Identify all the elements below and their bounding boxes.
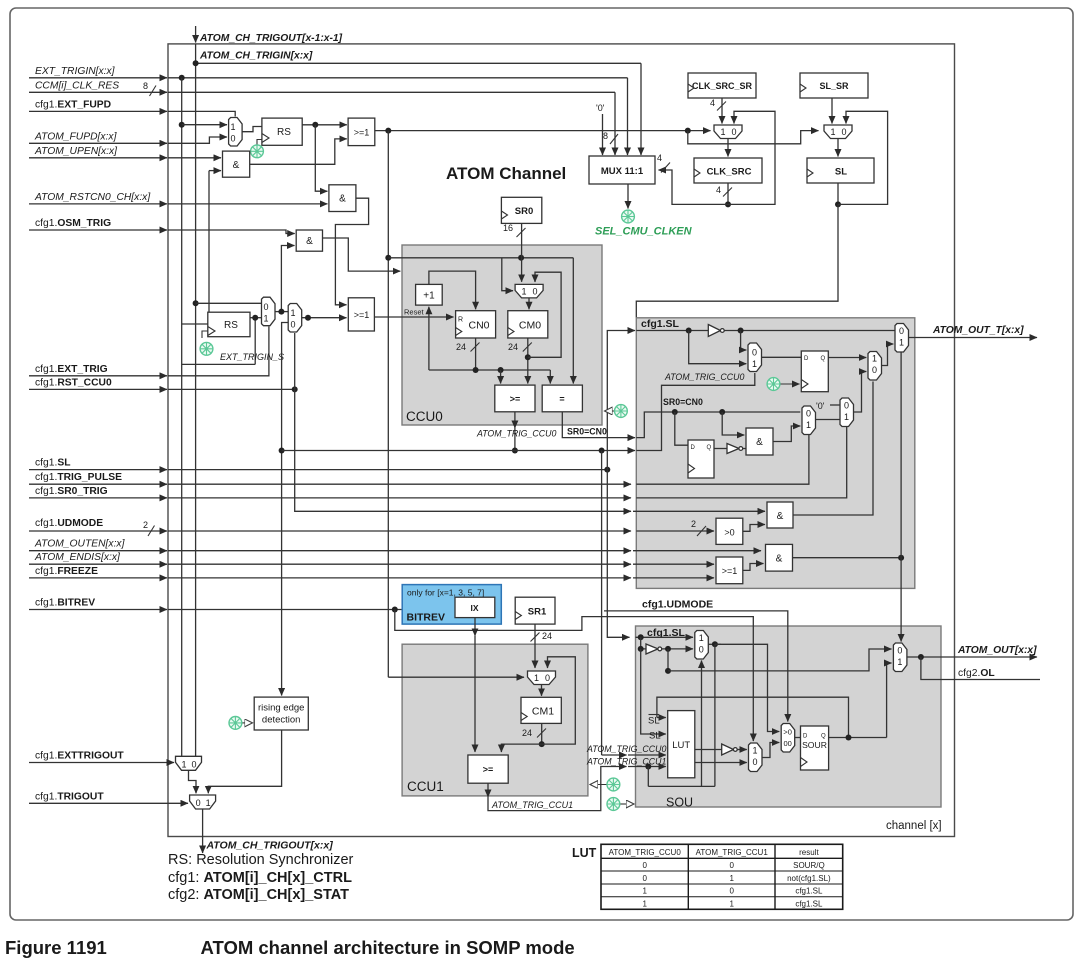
svg-text:SR0=CN0: SR0=CN0 [663,397,703,407]
svg-text:MUX 11:1: MUX 11:1 [601,166,644,177]
svg-text:0: 0 [545,673,550,683]
incrementer +1 [416,284,443,305]
wire mux A to flipflop F2 [762,356,802,358]
wire G1 trigger rail down to CCU1 mux select [387,131,389,678]
svg-text:1: 1 [729,874,734,883]
svg-text:4: 4 [710,98,715,108]
svg-text:ATOM Channel: ATOM Channel [446,164,566,183]
svg-text:>=1: >=1 [354,128,370,138]
output logic gray block (right) [636,318,915,589]
wire CM1 output [541,723,543,744]
wire CN0 output [475,338,477,370]
clock gate star for RS [257,140,262,145]
wire RS output [302,124,347,126]
register SL [807,158,874,183]
wire notSL to mux A 0-input [741,331,747,351]
clock gate star into CCU1 [590,784,607,786]
wire mux G2 to SOUR [795,737,801,739]
wire mux MC0 to CM0 [528,298,530,309]
wire EXT_TRIGIN_S horizontal [182,363,256,365]
svg-text:SEL_CMU_CLKEN: SEL_CMU_CLKEN [595,226,693,238]
wire cfg1.SL through output block [636,330,708,332]
svg-text:SR1: SR1 [528,607,547,618]
AND gate A3 (OSM) [296,230,322,251]
wire cfg1.UDMODE to SOU mux G2 select [604,611,788,722]
wire trigger to SL mux [688,131,819,144]
wire mux C to mux D 0-input [854,372,867,413]
flipflop F1 [688,440,714,478]
svg-text:CCU1: CCU1 [407,779,444,794]
svg-text:&: & [756,437,763,448]
wire SR0=CN0 to AND A4 [722,412,744,435]
svg-text:ATOM_TRIG_CCU0: ATOM_TRIG_CCU0 [664,372,744,382]
wire SL_SR to SL mux [831,98,833,124]
mux MCLK [714,125,742,139]
wire mux M2b output to OR G2 [302,317,347,319]
channel box [168,44,955,837]
node SR0 line junction [518,255,524,261]
wire CLK_SRC feedback to mux 0 input [728,111,775,204]
svg-text:>=1: >=1 [354,310,370,320]
svg-text:cfg1.TRIG_PULSE: cfg1.TRIG_PULSE [35,472,122,483]
wire cfg1.SL riser to output block and down to SOU [607,331,635,470]
mux M3b (TRIGOUT select) [190,795,216,809]
wire UDMODE to GT0 [636,530,714,532]
mux M3a (EXTTRIGOUT select) [176,756,202,770]
svg-text:1: 1 [806,420,811,430]
mux MC0 in CCU0 [515,284,543,298]
svg-text:LUT: LUT [672,740,690,751]
svg-text:ATOM channel architecture in S: ATOM channel architecture in SOMP mode [201,937,575,958]
svg-text:ATOM_TRIG_CCU0: ATOM_TRIG_CCU0 [609,848,682,857]
node trigger to CCU0 [385,255,391,261]
wire TRIGIN to mux2a 0-input [196,302,262,304]
svg-text:1: 1 [844,412,849,422]
wire UDMODE route to SOU [395,610,754,742]
svg-text:'0': '0' [816,401,825,411]
svg-text:IX: IX [470,603,478,613]
svg-text:&: & [233,160,240,171]
svg-text:0: 0 [899,326,904,336]
wire SR0=CN0 inside block [636,412,800,438]
register CM1 [521,697,561,723]
wire CLK_SRC feedback [727,183,729,204]
wire CN0 to comparator EQ [549,370,551,384]
wire mux F output down [714,644,716,786]
wire notSL to output mux H [667,649,669,671]
wire SR0=CN0 down to flipflop F1 [675,412,688,445]
svg-text:detection: detection [262,715,301,726]
svg-text:ATOM_TRIG_CCU1: ATOM_TRIG_CCU1 [586,757,666,767]
mux F [695,631,709,660]
register CN0 [456,311,496,338]
wire cfg1.SL inside SOU [636,636,694,638]
svg-text:&: & [777,511,784,522]
mux H [893,643,907,672]
wire SR0=CN0 out of EQ [562,412,635,438]
mux G2 [781,724,795,753]
svg-text:1: 1 [290,308,295,318]
mux G1 [749,743,763,772]
BITREV block [402,585,501,625]
wire CN0 value bus [429,369,550,371]
svg-text:Q: Q [707,445,712,451]
wire CM0 feedback to mux MC0 [528,272,561,357]
svg-text:0: 0 [263,302,268,312]
clock gate star into SOU [620,803,634,805]
svg-text:SL_SR: SL_SR [819,81,849,91]
svg-text:EXT_TRIGIN[x:x]: EXT_TRIGIN[x:x] [35,66,116,77]
wire AND A3 output into CCU0 [323,238,401,271]
svg-text:24: 24 [522,728,532,738]
svg-text:ATOM_UPEN[x:x]: ATOM_UPEN[x:x] [34,146,118,157]
svg-text:ATOM_RSTCN0_CH[x:x]: ATOM_RSTCN0_CH[x:x] [34,192,151,203]
svg-text:cfg1.TRIGOUT: cfg1.TRIGOUT [35,791,104,802]
svg-text:1: 1 [899,338,904,348]
AND gate A4 [746,428,773,455]
clock gate star for RS2 [202,331,208,338]
svg-text:1: 1 [181,759,186,769]
svg-text:R: R [458,317,463,324]
wire SL register output down to output block [636,204,838,317]
wire SR1 to CCU1 mux [534,624,536,668]
svg-text:cfg1.SL: cfg1.SL [795,887,823,896]
svg-text:result: result [799,848,819,857]
svg-text:ATOM_OUT_T[x:x]: ATOM_OUT_T[x:x] [932,325,1024,336]
svg-text:&: & [306,236,313,247]
wire AND A5 to mux D select [793,382,873,516]
svg-text:ATOM_CH_TRIGIN[x:x]: ATOM_CH_TRIGIN[x:x] [199,51,313,62]
svg-text:4: 4 [657,153,662,163]
mux B [802,406,816,435]
OR gate G3 [716,557,743,584]
svg-text:>=: >= [483,765,494,775]
svg-text:1: 1 [534,673,539,683]
svg-text:cfg1.EXT_FUPD: cfg1.EXT_FUPD [35,99,111,110]
wire RS output to AND2 [315,125,327,191]
wire enable to mux E select [900,353,902,558]
wire mux M3a to mux M3b [189,770,197,793]
wire mux D to mux E 1-input [882,344,894,366]
svg-text:00: 00 [784,739,792,748]
wire GT0 to AND A5 [743,525,765,532]
svg-text:D: D [691,445,696,451]
svg-text:SOUR: SOUR [802,740,827,750]
svg-text:BITREV: BITREV [407,612,446,624]
svg-text:cfg1.SL: cfg1.SL [795,899,823,908]
svg-text:SOU: SOU [666,796,693,810]
svg-text:1: 1 [897,657,902,667]
clock gate star into CCU0 [605,410,615,412]
wire AND A6 output enable [793,557,902,559]
wire ATOM_CH_TRIGOUT output [202,809,204,853]
wire mux F output [708,643,721,645]
svg-text:+1: +1 [423,291,435,302]
svg-text:0: 0 [844,401,849,411]
mux M1 (EXT_FUPD select) [229,118,243,147]
svg-text:channel [x]: channel [x] [886,820,942,832]
svg-text:4: 4 [716,185,721,195]
svg-text:SL: SL [648,716,660,727]
register SR1 [515,597,555,624]
node RST_CCU0 branch [292,386,298,392]
AND gate A2 [329,185,356,212]
mux MC1 in CCU1 [528,671,556,685]
svg-text:only for [x=1, 3, 5, 7]: only for [x=1, 3, 5, 7] [407,588,484,598]
inverter N3 [641,637,646,649]
rising edge detection box [254,697,308,730]
svg-text:ATOM_OUTEN[x:x]: ATOM_OUTEN[x:x] [34,539,126,550]
svg-text:CLK_SRC: CLK_SRC [707,167,752,178]
wire trigger into CCU0 [388,257,573,259]
svg-text:SR0: SR0 [515,206,533,217]
svg-text:ATOM_TRIG_CCU0: ATOM_TRIG_CCU0 [586,744,666,754]
wire SL mux to SL register [837,139,839,157]
svg-text:cfg1: ATOM[i]_CH[x]_CTRL: cfg1: ATOM[i]_CH[x]_CTRL [168,870,352,886]
wire CM0 output [527,338,529,384]
svg-text:0: 0 [699,645,704,655]
svg-text:cfg2: ATOM[i]_CH[x]_STAT: cfg2: ATOM[i]_CH[x]_STAT [168,887,349,903]
wire CCU0 mux select stub [502,258,513,291]
wire mux B to mux C [816,419,841,421]
wire clock mux to CLK_SRC [727,139,729,157]
node TRIGIN junction [193,60,199,66]
node TRIGIN to mux2a [193,300,199,306]
svg-text:1: 1 [263,314,268,324]
wire ATOM_OUT_T output [909,337,1038,339]
wire G3 to AND A6 [743,564,764,571]
AND gate A5 [767,502,793,528]
mux M2b [288,304,302,333]
wire SOU lower bus [648,785,715,787]
svg-text:0: 0 [230,134,235,144]
svg-text:1: 1 [699,633,704,643]
comparator GE1 [468,755,508,783]
svg-text:1: 1 [642,887,647,896]
svg-text:0: 0 [872,365,877,375]
mux A [748,343,762,372]
wire ATOM_TRIG_CCU1 output [487,783,489,797]
svg-text:0: 0 [196,798,201,808]
svg-text:RS: RS [224,320,238,331]
svg-text:>0: >0 [783,728,792,737]
svg-text:ATOM_FUPD[x:x]: ATOM_FUPD[x:x] [34,131,118,142]
svg-text:CM0: CM0 [519,320,541,332]
svg-text:0: 0 [729,861,734,870]
svg-text:24: 24 [542,631,552,641]
wire enable down to SOU mux [900,558,902,642]
svg-text:1: 1 [230,122,235,132]
wire ATOM_TRIG_CCU0 into SOU [602,754,627,756]
wire CM1 to comparator GE1 [501,744,541,752]
svg-text:not(cfg1.SL): not(cfg1.SL) [787,874,831,883]
wire SOUR Q feedback to LUT [657,697,849,737]
wire ATOM_TRIG_CCU0 horizontal [282,450,635,452]
svg-text:CCM[i]_CLK_RES: CCM[i]_CLK_RES [35,81,119,92]
register SL_SR [800,73,868,98]
node ATOM_TRIG_CCU0 to rising edge [279,448,285,454]
svg-text:16: 16 [503,223,513,233]
register CM0 [508,311,548,338]
svg-text:cfg1.SL: cfg1.SL [641,318,680,330]
svg-text:ATOM_TRIG_CCU1: ATOM_TRIG_CCU1 [491,800,573,810]
node RS output branch [312,122,318,128]
CCU1 gray block [402,644,588,796]
register SR0 [501,197,541,223]
resolution synchronizer RS2 [208,312,250,337]
svg-text:ATOM_CH_TRIGOUT[x:x]: ATOM_CH_TRIGOUT[x:x] [206,840,334,852]
inverter N2 [714,448,727,450]
svg-text:CLK_SRC_SR: CLK_SRC_SR [692,81,753,91]
node cfg1.SL branch [604,467,610,473]
svg-text:8: 8 [603,131,608,141]
svg-text:cfg1.FREEZE: cfg1.FREEZE [35,566,98,577]
svg-text:rising edge: rising edge [258,703,304,714]
svg-text:0: 0 [729,887,734,896]
wire ATOM_TRIG_CCU0 to mux A select [636,373,755,451]
wire CN0 to comparator GE [500,370,502,384]
svg-text:CM1: CM1 [532,706,554,718]
svg-text:ATOM_TRIG_CCU1: ATOM_TRIG_CCU1 [696,848,769,857]
svg-text:0: 0 [642,861,647,870]
wire CLK_SRC to MUX 11:1 [659,170,729,204]
svg-text:1: 1 [206,798,211,808]
svg-text:24: 24 [456,342,466,352]
svg-text:1: 1 [720,127,725,137]
wire mux F select [701,661,703,787]
AND gate A6 [766,544,793,571]
wire RS2 output [250,317,262,319]
svg-text:ATOM_CH_TRIGOUT[x-1:x-1]: ATOM_CH_TRIGOUT[x-1:x-1] [199,33,343,44]
svg-text:cfg1.OSM_TRIG: cfg1.OSM_TRIG [35,218,111,229]
wire into AND A1 lower input [209,170,221,172]
svg-text:>=: >= [510,394,521,404]
wire TRIG_PULSE to mux B select [636,435,809,484]
comparator EQ [542,385,582,412]
svg-text:RS: Resolution Synchronizer: RS: Resolution Synchronizer [168,852,354,868]
svg-text:1: 1 [521,287,526,297]
svg-text:cfg1.SR0_TRIG: cfg1.SR0_TRIG [35,486,108,497]
mux C [840,398,854,427]
svg-text:1: 1 [729,899,734,908]
wire rail A to mux1 1-input [182,124,227,126]
svg-text:D: D [803,734,808,740]
wire LUT output to inverter N4 [695,749,722,751]
svg-text:ATOM_ENDIS[x:x]: ATOM_ENDIS[x:x] [34,552,121,563]
wire +1 output loop to CN0 [429,271,476,309]
svg-text:0: 0 [731,127,736,137]
index box IX [455,597,495,617]
svg-text:SL: SL [835,167,847,178]
AND gate A1 (UPEN) [223,151,250,177]
mux M2a (EXT_TRIG select) [262,297,276,326]
mux MSL [824,125,852,139]
svg-text:RS: RS [277,127,291,138]
wire SOUR Q output [829,737,887,739]
wire RS2 output down to EXT_TRIGIN_S line [254,318,256,365]
svg-text:8: 8 [143,81,148,91]
wire rising edge output to TRIGOUT mux [208,730,281,793]
OR gate G2 (CN0 reset) [348,298,374,331]
node EXT_TRIGIN junction [179,75,185,81]
svg-text:SL: SL [649,731,661,742]
svg-text:1: 1 [752,746,757,756]
svg-text:cfg1.BITREV: cfg1.BITREV [35,598,95,609]
svg-text:cfg1.SL: cfg1.SL [35,458,71,469]
wire SR0 to CCU0 mux [521,223,523,281]
wire trigger into mux M2b 0-input [282,323,289,696]
svg-text:0: 0 [290,320,295,330]
wire rail A EXT_TRIGIN down [181,78,183,757]
svg-text:0: 0 [897,646,902,656]
mux D [868,352,882,381]
LUT table [601,844,843,909]
svg-text:CN0: CN0 [468,320,489,332]
svg-text:&: & [339,194,346,205]
mux E [895,324,909,353]
resolution synchronizer RS (top) [262,118,302,145]
LUT input labels [649,714,660,716]
SOU gray block [636,626,942,807]
svg-text:cfg1.EXT_TRIG: cfg1.EXT_TRIG [35,364,108,375]
svg-text:SOUR/Q: SOUR/Q [793,861,825,870]
wire SR0_TRIG to mux C select [636,427,846,498]
wire cfg2.OL output [921,657,1040,680]
svg-text:0: 0 [191,759,196,769]
svg-text:CCU0: CCU0 [406,409,443,424]
svg-text:cfg1.UDMODE: cfg1.UDMODE [35,518,103,529]
svg-text:0: 0 [806,409,811,419]
register CLK_SRC [694,158,762,183]
wire ATOM_OUT output [907,656,1037,658]
svg-text:0: 0 [642,874,647,883]
svg-text:>=1: >=1 [722,566,738,576]
svg-text:cfg2.OL: cfg2.OL [958,668,995,679]
node cfg1.BITREV branch [392,607,398,613]
svg-text:0: 0 [752,348,757,358]
svg-text:1: 1 [752,359,757,369]
MUX 11:1 [589,156,655,184]
LUT box [668,711,695,778]
clock gate star for rising edge detection [242,722,253,724]
node CCU1 trigger branch [645,764,651,770]
svg-text:=: = [559,394,564,404]
node rail A to mux1 [179,122,185,128]
svg-text:EXT_TRIGIN_S: EXT_TRIGIN_S [220,352,284,362]
svg-text:0: 0 [841,127,846,137]
OR gate G1 (update trigger) [348,118,375,146]
node clock line branch [685,128,691,134]
svg-text:cfg1.RST_CCU0: cfg1.RST_CCU0 [35,377,112,388]
svg-text:'0': '0' [596,103,605,113]
inverter N1 [708,325,720,337]
svg-text:Reset: Reset [404,308,425,317]
wire IX output into CCU1 [474,618,476,636]
wire CLK_SRC_SR to clock mux [721,98,723,124]
svg-text:cfg1.EXTTRIGOUT: cfg1.EXTTRIGOUT [35,751,124,762]
svg-text:&: & [776,554,783,565]
comparator GT0 [716,518,743,544]
wire mux MC1 to CM1 [541,685,543,696]
svg-text:SR0=CN0: SR0=CN0 [567,427,607,437]
svg-text:2: 2 [143,520,148,530]
wire CM1 feedback to mux MC1 [542,657,576,744]
wire SL feedback [837,183,839,204]
register CLK_SRC_SR [688,73,756,98]
wire RST_CCU0 to mux2b select and to AND gate (right block) [294,333,296,389]
wire mux G1 to mux G2 [762,743,779,758]
svg-text:ATOM_OUT[x:x]: ATOM_OUT[x:x] [957,645,1037,656]
